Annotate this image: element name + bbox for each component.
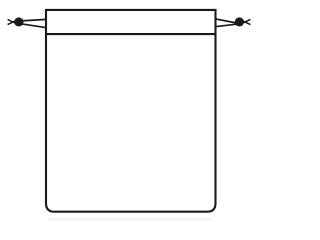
left cord-lock bead: [14, 17, 23, 26]
bag body: [46, 10, 216, 212]
right cord frayed end: [239, 19, 250, 25]
left drawstring lower cord: [21, 24, 47, 28]
left cord frayed end: [8, 19, 19, 25]
left drawstring upper cord: [21, 19, 47, 21]
right drawstring upper cord: [215, 19, 237, 23]
right cord-lock bead: [235, 17, 244, 26]
right drawstring lower cord: [215, 24, 237, 27]
drawcord channel line: [46, 33, 216, 35]
bag shadow: [48, 218, 213, 220]
